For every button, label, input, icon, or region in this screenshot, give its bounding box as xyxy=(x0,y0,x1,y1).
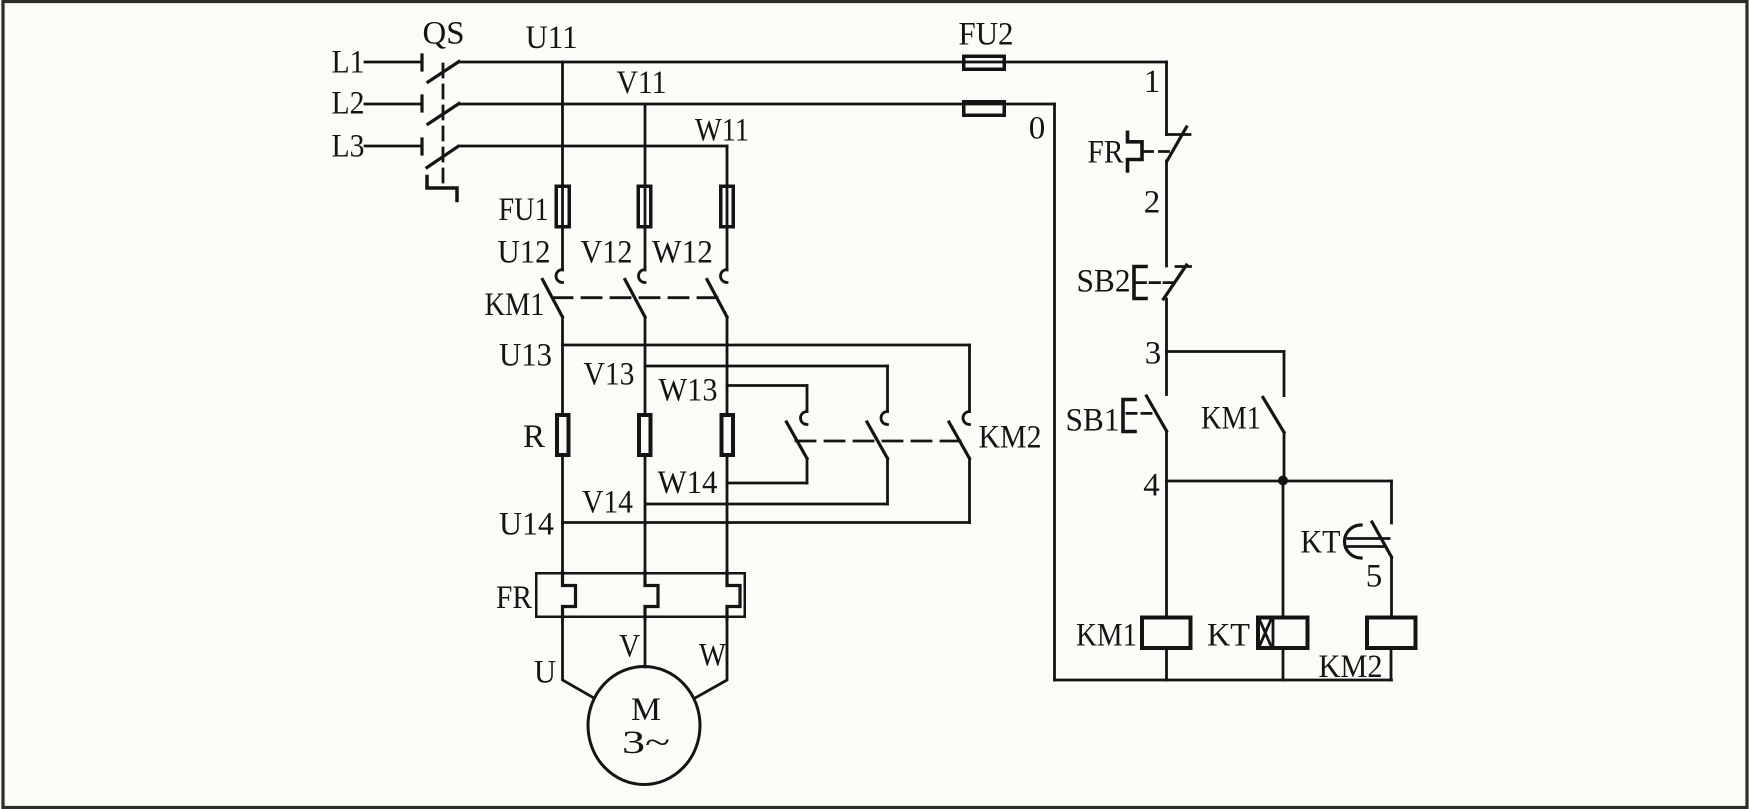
wire control phase drop xyxy=(1165,62,1168,135)
contactor KM2 contact W lower wire xyxy=(806,459,809,484)
timer contact KT blade xyxy=(1372,522,1392,557)
svg-text:KM2: KM2 xyxy=(979,420,1042,456)
wire W11 xyxy=(459,145,727,148)
switch QS pole-1 fixed terminal xyxy=(420,55,423,70)
pushbutton SB2 blade xyxy=(1164,265,1187,299)
wire control neutral rail xyxy=(1053,104,1056,680)
thermal relay FR heater V xyxy=(645,572,658,618)
contactor KM2 contact V blade xyxy=(867,422,888,459)
svg-text:3~: 3~ xyxy=(622,725,670,761)
wire U column mid xyxy=(561,317,564,413)
wire L3 lead xyxy=(365,145,421,148)
wire V column mid xyxy=(644,317,647,413)
wire U13 xyxy=(563,344,970,347)
svg-text:W11: W11 xyxy=(695,113,749,149)
wire KM2 coil to bus xyxy=(1390,650,1393,680)
wire W14 xyxy=(727,482,807,485)
svg-text:1: 1 xyxy=(1144,64,1161,100)
contactor KM2 contact W terminal arc xyxy=(801,412,807,425)
wire KT contact to KM2 coil xyxy=(1390,557,1393,616)
switch QS pole-3 blade xyxy=(427,147,458,168)
switch QS handle xyxy=(427,177,457,201)
fuse FU1 W-phase xyxy=(721,186,734,227)
wire W column lower xyxy=(726,457,729,572)
pushbutton SB1 upper terminal xyxy=(1165,352,1168,395)
wire W column mid xyxy=(726,317,729,413)
wire V column upper xyxy=(644,104,647,270)
contactor KM2 contact U terminal arc xyxy=(963,412,969,425)
svg-text:W: W xyxy=(699,638,727,674)
svg-text:W14: W14 xyxy=(658,465,718,501)
contactor KM1 main contact V blade xyxy=(625,280,645,318)
svg-text:SB1: SB1 xyxy=(1066,403,1120,439)
wire W13 xyxy=(727,384,807,387)
wire KM1 coil to bus xyxy=(1165,650,1168,680)
svg-text:SB2: SB2 xyxy=(1077,264,1131,300)
contactor KM1 link (dashed) xyxy=(553,296,720,299)
contactor KM2 contact U lower wire xyxy=(968,459,971,523)
coil KM2 xyxy=(1367,618,1416,649)
contactor KM2 contact W blade xyxy=(787,422,808,459)
svg-text:U12: U12 xyxy=(498,235,551,271)
switch QS pole-3 fixed terminal xyxy=(420,139,423,154)
svg-text:M: M xyxy=(631,692,661,728)
wire node 3 branch xyxy=(1167,350,1285,353)
contactor KM2 contact U blade xyxy=(949,422,970,459)
resistor R U-phase xyxy=(557,415,569,455)
timer contact KT chord lower xyxy=(1348,545,1384,548)
svg-text:5: 5 xyxy=(1366,559,1383,595)
svg-text:QS: QS xyxy=(423,16,465,52)
pushbutton SB1 actuator xyxy=(1123,400,1135,432)
svg-text:L2: L2 xyxy=(332,86,365,122)
svg-text:W12: W12 xyxy=(652,235,713,271)
junction node 4 dot xyxy=(1278,476,1288,486)
pushbutton SB1 link (dashed) xyxy=(1127,412,1157,415)
resistor R W-phase xyxy=(722,415,734,455)
wire L1 lead xyxy=(365,61,421,64)
wire node 4 to KM1 coil xyxy=(1165,481,1168,616)
wire bottom bus xyxy=(1055,679,1392,682)
contactor KM2 contact V upper terminal xyxy=(886,366,889,412)
wire V column lower xyxy=(644,457,647,572)
contactor KM1 main contact W blade xyxy=(707,280,727,318)
svg-text:L3: L3 xyxy=(332,129,365,165)
svg-text:4: 4 xyxy=(1143,468,1160,504)
svg-text:V12: V12 xyxy=(581,235,633,271)
svg-text:V13: V13 xyxy=(584,357,635,393)
wire U to motor xyxy=(563,618,594,698)
svg-text:V14: V14 xyxy=(582,485,633,521)
wire U column upper xyxy=(561,62,564,270)
contactor KM2 link (dashed) xyxy=(796,440,960,443)
pushbutton SB2 link (dashed) xyxy=(1136,281,1172,284)
wire U11 xyxy=(459,61,1167,64)
svg-text:U13: U13 xyxy=(499,338,552,374)
wire U14 xyxy=(563,521,970,524)
fuse FU2 lower xyxy=(964,102,1005,116)
thermal relay FR heater U xyxy=(563,572,576,618)
wire KT contact drop xyxy=(1390,481,1393,523)
wire L2 lead xyxy=(365,103,421,106)
svg-text:KM1: KM1 xyxy=(1201,401,1261,437)
contactor KM1 aux contact blade xyxy=(1263,397,1284,432)
resistor R V-phase xyxy=(639,415,651,455)
svg-text:FR: FR xyxy=(496,580,532,616)
svg-text:U: U xyxy=(534,655,556,691)
coil KT cross xyxy=(1260,620,1272,647)
contactor KM1 aux contact lower wire xyxy=(1283,432,1286,481)
svg-text:KM1: KM1 xyxy=(485,287,545,323)
wire W column upper xyxy=(726,146,729,270)
wire U column lower xyxy=(561,457,564,572)
coil KT divider xyxy=(1272,618,1275,649)
timer contact KT arc xyxy=(1345,525,1362,558)
contactor KM1 main contact U terminal arc xyxy=(556,270,562,283)
fuse FU1 U-phase xyxy=(556,186,569,227)
thermal contact FR actuator xyxy=(1128,132,1143,171)
svg-text:2: 2 xyxy=(1144,185,1161,221)
svg-text:KT: KT xyxy=(1301,525,1341,561)
contactor KM2 contact U upper terminal xyxy=(968,345,971,412)
wire W to motor xyxy=(696,618,727,698)
pushbutton SB2 actuator xyxy=(1134,267,1146,299)
coil KT xyxy=(1258,618,1308,649)
svg-text:FU2: FU2 xyxy=(959,17,1014,53)
fuse FU2 upper xyxy=(964,56,1005,69)
switch QS pole-1 blade xyxy=(428,62,459,83)
svg-text:3: 3 xyxy=(1145,336,1162,372)
motor M circle xyxy=(588,667,700,785)
thermal relay FR box xyxy=(536,573,745,617)
contactor KM1 main contact V terminal arc xyxy=(639,270,646,283)
contactor KM1 main contact W terminal arc xyxy=(721,270,727,283)
svg-text:U14: U14 xyxy=(499,507,554,543)
wire KT coil to bus xyxy=(1282,650,1285,680)
svg-text:W13: W13 xyxy=(659,373,718,409)
svg-text:0: 0 xyxy=(1029,111,1046,147)
contactor KM1 aux contact upper terminal xyxy=(1283,352,1286,396)
wire node 4 to KT coil xyxy=(1282,481,1285,616)
wire node 2 xyxy=(1165,161,1168,266)
svg-text:KM1: KM1 xyxy=(1076,618,1137,654)
wire V11 xyxy=(459,103,1055,106)
svg-text:V: V xyxy=(619,629,640,665)
coil KM1 xyxy=(1142,618,1191,649)
contactor KM1 main contact U blade xyxy=(543,280,563,318)
svg-text:KT: KT xyxy=(1207,618,1250,654)
pushbutton SB2 crossbar xyxy=(1176,265,1191,268)
contactor KM2 contact V terminal arc xyxy=(881,412,887,425)
thermal relay FR heater W xyxy=(727,572,740,618)
switch QS mechanical link (dashed) xyxy=(442,64,445,187)
thermal contact FR blade xyxy=(1167,127,1187,161)
svg-text:R: R xyxy=(523,419,545,455)
fuse FU1 V-phase xyxy=(638,186,651,227)
pushbutton SB1 blade xyxy=(1147,396,1167,431)
thermal contact FR fixed-terminal bar xyxy=(1167,133,1191,136)
wire V14 xyxy=(645,503,888,506)
svg-text:V11: V11 xyxy=(617,65,667,101)
wire V13 xyxy=(645,365,888,368)
wire V to motor xyxy=(644,618,647,667)
wire SB1 lower xyxy=(1165,431,1168,481)
svg-text:U11: U11 xyxy=(526,20,578,56)
switch QS pole-2 fixed terminal xyxy=(420,96,423,111)
wire node 4 xyxy=(1167,480,1392,483)
wire node 3 xyxy=(1165,299,1168,352)
contactor KM2 contact V lower wire xyxy=(886,459,889,505)
svg-text:FU1: FU1 xyxy=(499,192,549,228)
svg-text:FR: FR xyxy=(1088,135,1124,171)
switch QS pole-2 blade xyxy=(428,104,459,125)
svg-text:L1: L1 xyxy=(332,45,365,81)
timer contact KT chord upper xyxy=(1348,537,1389,540)
thermal contact FR link (dashed) xyxy=(1144,150,1172,153)
contactor KM2 contact W upper terminal xyxy=(806,386,809,412)
